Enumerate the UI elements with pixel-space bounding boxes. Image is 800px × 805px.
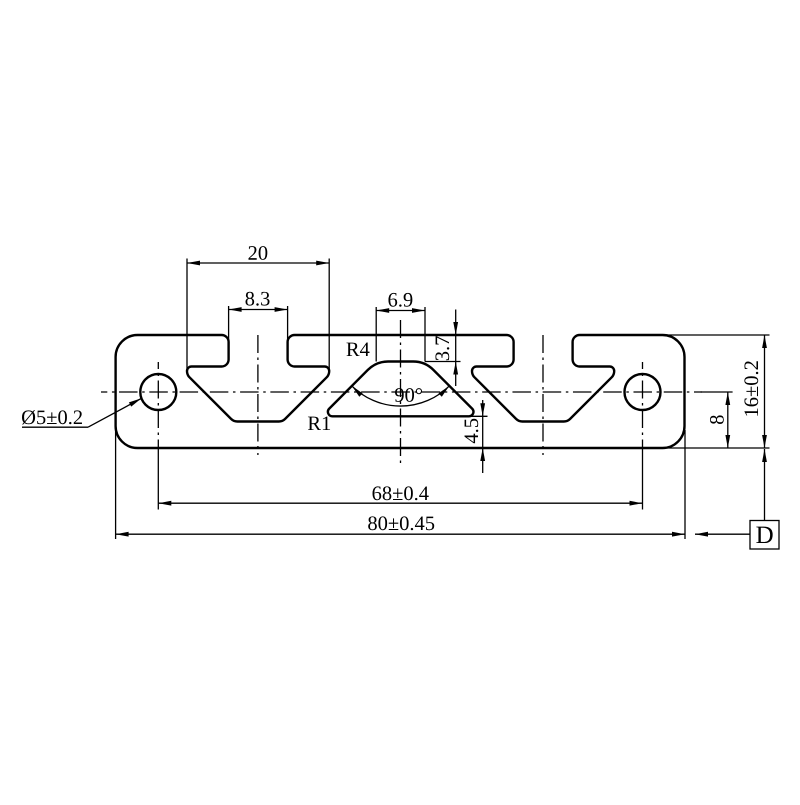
dimension 16±0.2: [658, 335, 770, 448]
datum D symbol: [695, 449, 779, 549]
dimension 8.3: [229, 292, 288, 342]
dimension 68±0.4: [158, 486, 642, 505]
label R1: [308, 416, 330, 430]
centerline hole right: [642, 362, 644, 448]
hole left: [140, 374, 176, 410]
dimension 80±0.45: [116, 426, 685, 539]
dimension 20: [187, 246, 329, 371]
centerline T-slot2: [542, 335, 544, 455]
centerline T-slot1: [257, 335, 259, 455]
dimension 8: [701, 392, 733, 448]
centerline trapezoid: [400, 320, 402, 465]
centerline hole left: [157, 362, 159, 448]
label Ø5±0.2 leader: [22, 398, 142, 427]
profile outline: [116, 335, 685, 448]
angle 90 dimension: [352, 386, 450, 406]
dimension 3.7: [425, 310, 461, 387]
trapezoid slot cavity: [328, 362, 474, 417]
dimension 6.9: [376, 293, 425, 362]
hole right: [625, 374, 661, 410]
label R4: [346, 343, 369, 356]
dimension 4.5: [460, 400, 488, 473]
centerline horizontal: [101, 391, 702, 393]
